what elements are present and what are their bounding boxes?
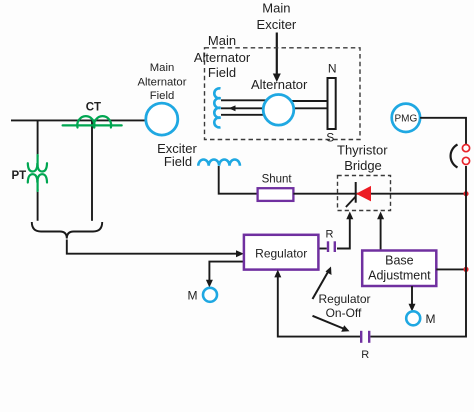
svg-text:M: M [188,289,198,303]
wire: shunt to right bus through thyristor [293,193,466,195]
svg-text:Main: Main [150,62,175,74]
dashed box: thyristor bridge [338,176,391,211]
capacitor R1 (purple bars) [327,241,329,252]
svg-text:Regulator: Regulator [255,246,307,260]
arrow on shaft (left) [229,105,236,111]
capacitor R2 (purple bars) [360,331,362,343]
wire: bus drop left (PT branch) [37,120,39,220]
resistor Shunt [258,188,294,201]
wire/arrow: firing signal from base adjustment to bridge [380,217,382,251]
exciter winding coil (vertical, cyan) [214,88,220,127]
svg-text:R: R [326,228,334,240]
svg-text:PT: PT [11,170,26,182]
svg-text:Main: Main [208,33,236,48]
svg-text:Thyristor: Thyristor [337,142,388,157]
svg-text:N: N [328,61,337,75]
exciter field coil (horizontal, cyan) [198,159,240,165]
wire: brace to regulator input [67,240,238,254]
wire: base adjustment to right bus [436,268,466,270]
shaft lines (exciter field winding to alternator) [221,100,328,115]
base adjustment box [362,251,436,287]
arrow: on-off to R2 [313,316,345,329]
svg-text:Bridge: Bridge [344,158,382,173]
node: junction red dot (thyristor output) [463,191,468,196]
main alternator field circle [146,103,178,135]
switch blade arc [451,145,458,168]
svg-text:Shunt: Shunt [262,173,293,185]
svg-text:Alternator: Alternator [251,77,308,92]
brace (under PT/CT drops) [32,222,102,239]
meter M2 [406,311,420,325]
PMG circle [392,104,420,132]
CT (current transformer, green) [63,116,122,127]
wire: bottom feedback loop [278,274,360,337]
svg-text:S: S [326,130,334,144]
svg-text:On-Off: On-Off [326,306,362,320]
svg-text:Alternator: Alternator [194,50,251,65]
arrow: on-off to R1 [313,271,329,299]
wire/arrow: base adjustment to meter M2 [411,286,413,306]
svg-text:PMG: PMG [395,114,418,125]
arrow into regulator bottom [274,270,281,278]
node: junction red dot (base adjustment) [463,267,468,272]
regulator box [244,235,319,270]
arrow main exciter [276,33,278,76]
arrow into regulator [236,250,244,257]
wire: coil to shunt [219,166,258,194]
wire: regulator to capacitor R1 [318,248,326,250]
svg-text:Main: Main [262,1,290,16]
svg-text:Base: Base [385,254,414,268]
wire mask behind PT [36,157,39,189]
svg-text:R: R [361,349,369,361]
wire: PMG to switch [420,118,466,145]
wire: bus drop under CT [91,120,93,220]
thyristor SCR (red) [346,182,371,207]
svg-text:Field: Field [208,65,236,80]
svg-text:Field: Field [164,154,192,169]
svg-text:Alternator: Alternator [138,76,187,88]
dashed box: main exciter unit [205,48,361,140]
PT (potential transformer, green) [28,155,47,191]
svg-text:Adjustment: Adjustment [368,269,431,283]
magnet bar [328,78,336,129]
svg-text:M: M [426,312,436,326]
meter M1 [203,288,217,302]
switch contacts (red circles) [462,145,469,152]
arrow down to M1 [206,280,213,288]
wire/arrow: firing signal from regulator R to bridge [337,217,350,249]
alternator circle [263,95,294,126]
svg-text:CT: CT [86,101,101,113]
svg-text:Regulator: Regulator [318,292,370,306]
svg-text:Exciter: Exciter [257,17,297,32]
svg-text:Field: Field [150,90,175,102]
wire: regulator output to meter M1 [209,262,244,282]
wire: generator bus [11,119,146,121]
